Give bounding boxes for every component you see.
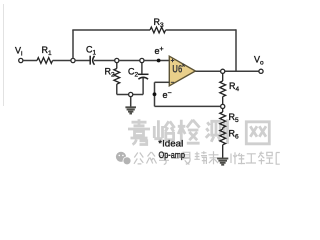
node R2 top bbox=[115, 58, 119, 62]
faint page border line (left) bbox=[3, 4, 5, 106]
node Vo output terminal bbox=[259, 69, 263, 73]
watermark big char 3 (jian) bbox=[178, 120, 200, 144]
svg-text:*Ideal: *Ideal bbox=[158, 138, 183, 149]
watermark small text row (gong zhong hao - yi rui lai kao xing gong cheng) bbox=[134, 151, 280, 164]
resistor R5 bbox=[220, 109, 226, 128]
watermark big char 5 (wang) bbox=[246, 122, 269, 144]
wire to ground 1 bbox=[130, 97, 132, 107]
wire C2 node to op-amp + input bbox=[144, 60, 169, 62]
ground 2 bbox=[217, 159, 228, 165]
watermark big char 2 (yu) bbox=[154, 120, 174, 139]
watermark big char 4 (ce) bbox=[206, 119, 228, 144]
wire e- vertical bbox=[154, 82, 156, 106]
resistor R6 bbox=[220, 128, 226, 159]
wire feedback down to output bbox=[235, 29, 237, 71]
node ground tap bbox=[129, 92, 133, 96]
node R4-R5 junction bbox=[221, 104, 225, 108]
node C2 top bbox=[140, 58, 144, 62]
resistor R4 bbox=[220, 73, 226, 104]
resistor R3 bbox=[150, 27, 166, 33]
wire op-amp output bbox=[195, 70, 259, 72]
wire node A up to feedback bbox=[72, 30, 74, 58]
capacitor C1 bbox=[90, 56, 94, 65]
svg-text:Op-amp: Op-amp bbox=[159, 150, 186, 161]
wire C1 to R2 node bbox=[94, 60, 115, 62]
node A junction after R1 bbox=[71, 58, 75, 62]
svg-text:*: * bbox=[182, 62, 186, 72]
wire top feedback right segment bbox=[166, 29, 236, 31]
wire op-amp - input (horizontal) bbox=[155, 81, 170, 83]
node output junction bbox=[221, 69, 225, 73]
node e+ probe dot bbox=[157, 59, 161, 63]
wire bottom R2-C2 bbox=[117, 94, 143, 96]
ground 1 bbox=[125, 107, 136, 113]
watermark logo (two gray chat bubbles) bbox=[116, 152, 131, 165]
resistor R2 bbox=[114, 63, 120, 95]
node Vi input terminal bbox=[19, 58, 23, 62]
wire R2 node to C2 node bbox=[119, 60, 140, 62]
watermark big char 1 (jia) bbox=[128, 119, 150, 144]
svg-text:U6: U6 bbox=[172, 64, 182, 76]
op-amp U6 bbox=[169, 56, 195, 86]
wire top feedback left segment bbox=[72, 29, 150, 31]
resistor R1 bbox=[37, 58, 53, 64]
wire e- feedback bottom bbox=[155, 105, 221, 107]
wire Vi to R1 bbox=[23, 60, 37, 62]
capacitor C2 bbox=[138, 63, 149, 95]
node e- probe dot bbox=[153, 92, 157, 96]
wire node A to C1 bbox=[75, 60, 90, 62]
wire R1 to node A bbox=[53, 60, 71, 62]
